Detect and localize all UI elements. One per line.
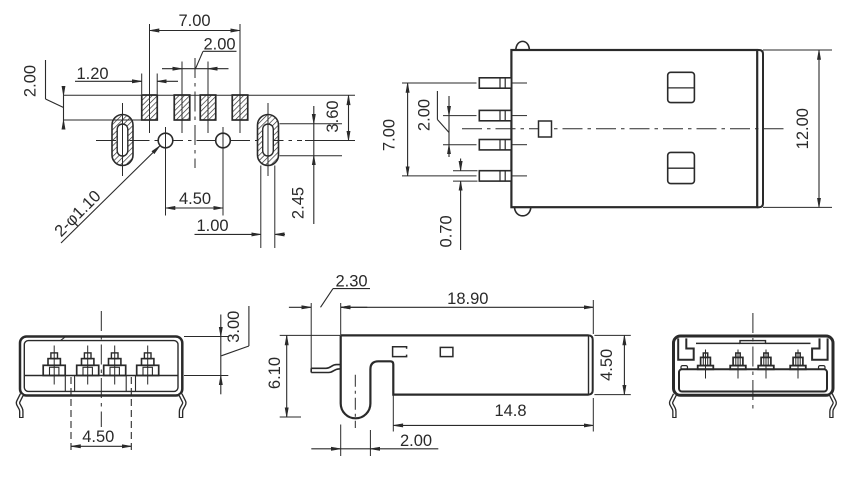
dimension 14.8 line bbox=[393, 424, 593, 426]
dimension 3.00 leader bbox=[248, 306, 250, 346]
top view pin 1 bbox=[479, 78, 511, 88]
through hole circle H2 bbox=[216, 133, 231, 148]
side view small window bbox=[440, 347, 453, 356]
svg-text:2.00: 2.00 bbox=[203, 35, 235, 53]
dimension 2.00 left leader bbox=[45, 60, 47, 99]
pin3 centerline / 2.00 extension bbox=[443, 144, 477, 146]
dimension 2.45 extension lines bbox=[280, 123, 343, 125]
front view contact 1 bbox=[43, 346, 65, 385]
dimension 2.45 line bbox=[313, 106, 315, 124]
front view inner shell bbox=[24, 341, 178, 392]
side view C-shaped cutout bbox=[393, 347, 407, 357]
rear view tray right bump bbox=[819, 366, 826, 370]
SMT pad P4 (hatched) bbox=[232, 95, 248, 120]
dimension 6.10 extension lines bbox=[280, 334, 340, 336]
dimension 6.10 line bbox=[286, 335, 288, 417]
svg-text:4.50: 4.50 bbox=[179, 190, 211, 208]
top view pin 4 bbox=[479, 171, 511, 181]
centerline extension for 3.60 bbox=[305, 140, 355, 142]
top view shell spring bump lower bbox=[515, 207, 531, 216]
dimension 2.30 leader shelf bbox=[333, 288, 370, 290]
rear view outer shell bbox=[674, 336, 834, 395]
front view right leg bbox=[181, 395, 185, 419]
rear view top notch bbox=[740, 341, 766, 344]
dimension 18.90 line bbox=[341, 306, 594, 308]
side view tip inner line bbox=[588, 335, 590, 394]
pad P4 centerline bbox=[239, 24, 241, 133]
rear view contact 2 bbox=[730, 350, 746, 379]
svg-text:0.70: 0.70 bbox=[438, 215, 456, 247]
top view shell spring bump upper bbox=[516, 41, 530, 50]
front view contact 2 bbox=[77, 346, 99, 385]
front view contact 4 bbox=[137, 346, 159, 385]
pin centerline stubs inside body bbox=[511, 82, 527, 84]
svg-text:12.00: 12.00 bbox=[794, 108, 812, 149]
dimension 3.00 extension lines bbox=[184, 336, 228, 338]
top view pin 2 bbox=[479, 110, 511, 120]
dimension 1.20 line bbox=[75, 80, 142, 82]
dimension 2.30 extension lines bbox=[310, 303, 312, 368]
rear view left leg bbox=[671, 395, 675, 419]
footprint pad bottom extension line bbox=[64, 119, 142, 121]
dimension 7.00 line bbox=[150, 30, 241, 32]
svg-text:3.60: 3.60 bbox=[324, 100, 342, 132]
oval slot hole right (hatched ring) bbox=[258, 115, 279, 166]
rear view left corner fold bbox=[678, 338, 694, 359]
footprint horizontal centerline bbox=[96, 140, 302, 142]
dimension 1.00 line bbox=[195, 233, 261, 235]
side view body outline bbox=[341, 335, 589, 418]
dimension 4.50 (side) extension lines bbox=[594, 334, 630, 336]
pad P3 centerline bbox=[207, 62, 209, 134]
dimension 14.8 extension lines bbox=[392, 395, 394, 432]
top view pin 3 bbox=[479, 140, 511, 150]
svg-text:6.10: 6.10 bbox=[266, 357, 284, 389]
SMT pad P2 (hatched) bbox=[174, 95, 190, 120]
rear view right corner fold bbox=[812, 338, 828, 359]
side view slot centerline bbox=[354, 375, 356, 428]
dimension 2.00 (top view) arrows bbox=[448, 96, 450, 116]
svg-text:2.00: 2.00 bbox=[415, 99, 433, 131]
rear view centerline bbox=[752, 313, 754, 413]
4.50 dashed extension left bbox=[70, 377, 72, 453]
dimension 0.70 extension lines bbox=[453, 170, 478, 172]
rear view contact 4 bbox=[790, 350, 806, 379]
front view centerline bbox=[100, 311, 102, 427]
hole H2 vertical centerline / 4.50 extension bbox=[222, 127, 224, 216]
pad P2 centerline bbox=[181, 62, 183, 134]
dimension 12.00 line bbox=[818, 50, 820, 207]
pin4 centerline / 7.00 extension bbox=[402, 175, 477, 177]
slot width extension lines for 1.00 bbox=[260, 166, 262, 249]
footprint vertical centerline bbox=[194, 58, 196, 168]
dimension 18.90 extension right bbox=[592, 300, 594, 334]
front view slot dividers bbox=[64, 376, 66, 392]
svg-text:1.20: 1.20 bbox=[76, 65, 108, 83]
dimension 7.00 (top view) line bbox=[407, 83, 409, 176]
svg-text:2.00: 2.00 bbox=[400, 432, 432, 450]
rear view contact 3 bbox=[758, 350, 774, 379]
rear view insulator tray bbox=[679, 369, 827, 391]
dimension 1.20 extension lines bbox=[141, 74, 143, 95]
dimension 2.00 extension stubs bbox=[340, 425, 342, 457]
front view left leg bbox=[18, 395, 22, 419]
SMT pad P1 (hatched) bbox=[142, 95, 158, 120]
pad P1 centerline bbox=[149, 24, 151, 133]
svg-text:14.8: 14.8 bbox=[494, 402, 526, 420]
svg-text:3.00: 3.00 bbox=[225, 311, 243, 343]
latch hole upper bbox=[668, 72, 695, 102]
dimension 2.00 (top view) leader bbox=[436, 91, 438, 120]
hole H1 vertical centerline / 4.50 extension bbox=[165, 127, 167, 216]
front view shell seam bbox=[61, 337, 66, 341]
svg-text:4.50: 4.50 bbox=[82, 428, 114, 446]
svg-text:2.30: 2.30 bbox=[335, 273, 367, 291]
dimension 0.70 line bbox=[460, 159, 462, 171]
oval slot right centerline bbox=[267, 103, 269, 176]
dimension 4.50 (side) line bbox=[623, 335, 625, 394]
pin1 centerline / 7.00 extension bbox=[402, 82, 477, 84]
svg-text:7.00: 7.00 bbox=[381, 119, 399, 151]
side view SMT lead bbox=[311, 365, 341, 373]
rear view tray left bump bbox=[681, 366, 688, 370]
oval slot hole left (hatched ring) bbox=[112, 115, 133, 166]
svg-text:4.50: 4.50 bbox=[598, 349, 616, 381]
top view main centerline bbox=[462, 128, 787, 130]
rear view top inner line bbox=[696, 342, 740, 344]
retention square on centerline bbox=[539, 121, 552, 137]
through hole circle H1 bbox=[158, 133, 173, 148]
dimension 2.30 arrows bbox=[289, 306, 311, 308]
dimension 3.00 line bbox=[220, 315, 222, 337]
dimension 2.00 (side) arrows bbox=[311, 448, 340, 450]
oval slot left centerline bbox=[122, 103, 124, 176]
dimension 2.00 (pad pitch) line with outside arrows bbox=[162, 68, 182, 70]
front view insulator top edge bbox=[24, 375, 178, 377]
svg-text:1.00: 1.00 bbox=[196, 217, 228, 235]
dimension 12.00 extension lines bbox=[763, 49, 832, 51]
rear view contact 1 bbox=[698, 350, 714, 379]
SMT pad P3 (hatched) bbox=[200, 95, 216, 120]
4.50 dashed extension right bbox=[130, 377, 132, 453]
side view tip cap bbox=[589, 335, 593, 394]
dimension 4.50 line bbox=[166, 207, 224, 209]
dimension 2.00 left (pad length) bbox=[63, 88, 65, 96]
dimension 4.50 (front) line bbox=[71, 445, 131, 447]
dimension 3.60 line bbox=[348, 95, 350, 140]
svg-text:2.00: 2.00 bbox=[22, 65, 40, 97]
front view outer shell bbox=[20, 337, 182, 396]
footprint horizontal reference line (pad tops) bbox=[64, 94, 356, 96]
svg-text:18.90: 18.90 bbox=[447, 290, 488, 308]
svg-text:2.45: 2.45 bbox=[290, 187, 308, 219]
pin2 centerline / 2.00 extension bbox=[443, 115, 477, 117]
label 2-phi1.10 leader bbox=[61, 146, 160, 243]
latch hole lower bbox=[668, 152, 695, 183]
top view shell tip cap bbox=[757, 50, 763, 207]
svg-text:7.00: 7.00 bbox=[178, 12, 210, 30]
dimension 2.00 leader shelf bbox=[203, 50, 237, 52]
rear view right leg bbox=[831, 395, 835, 419]
top view body outline bbox=[511, 50, 757, 207]
front view contact 3 bbox=[104, 346, 126, 385]
